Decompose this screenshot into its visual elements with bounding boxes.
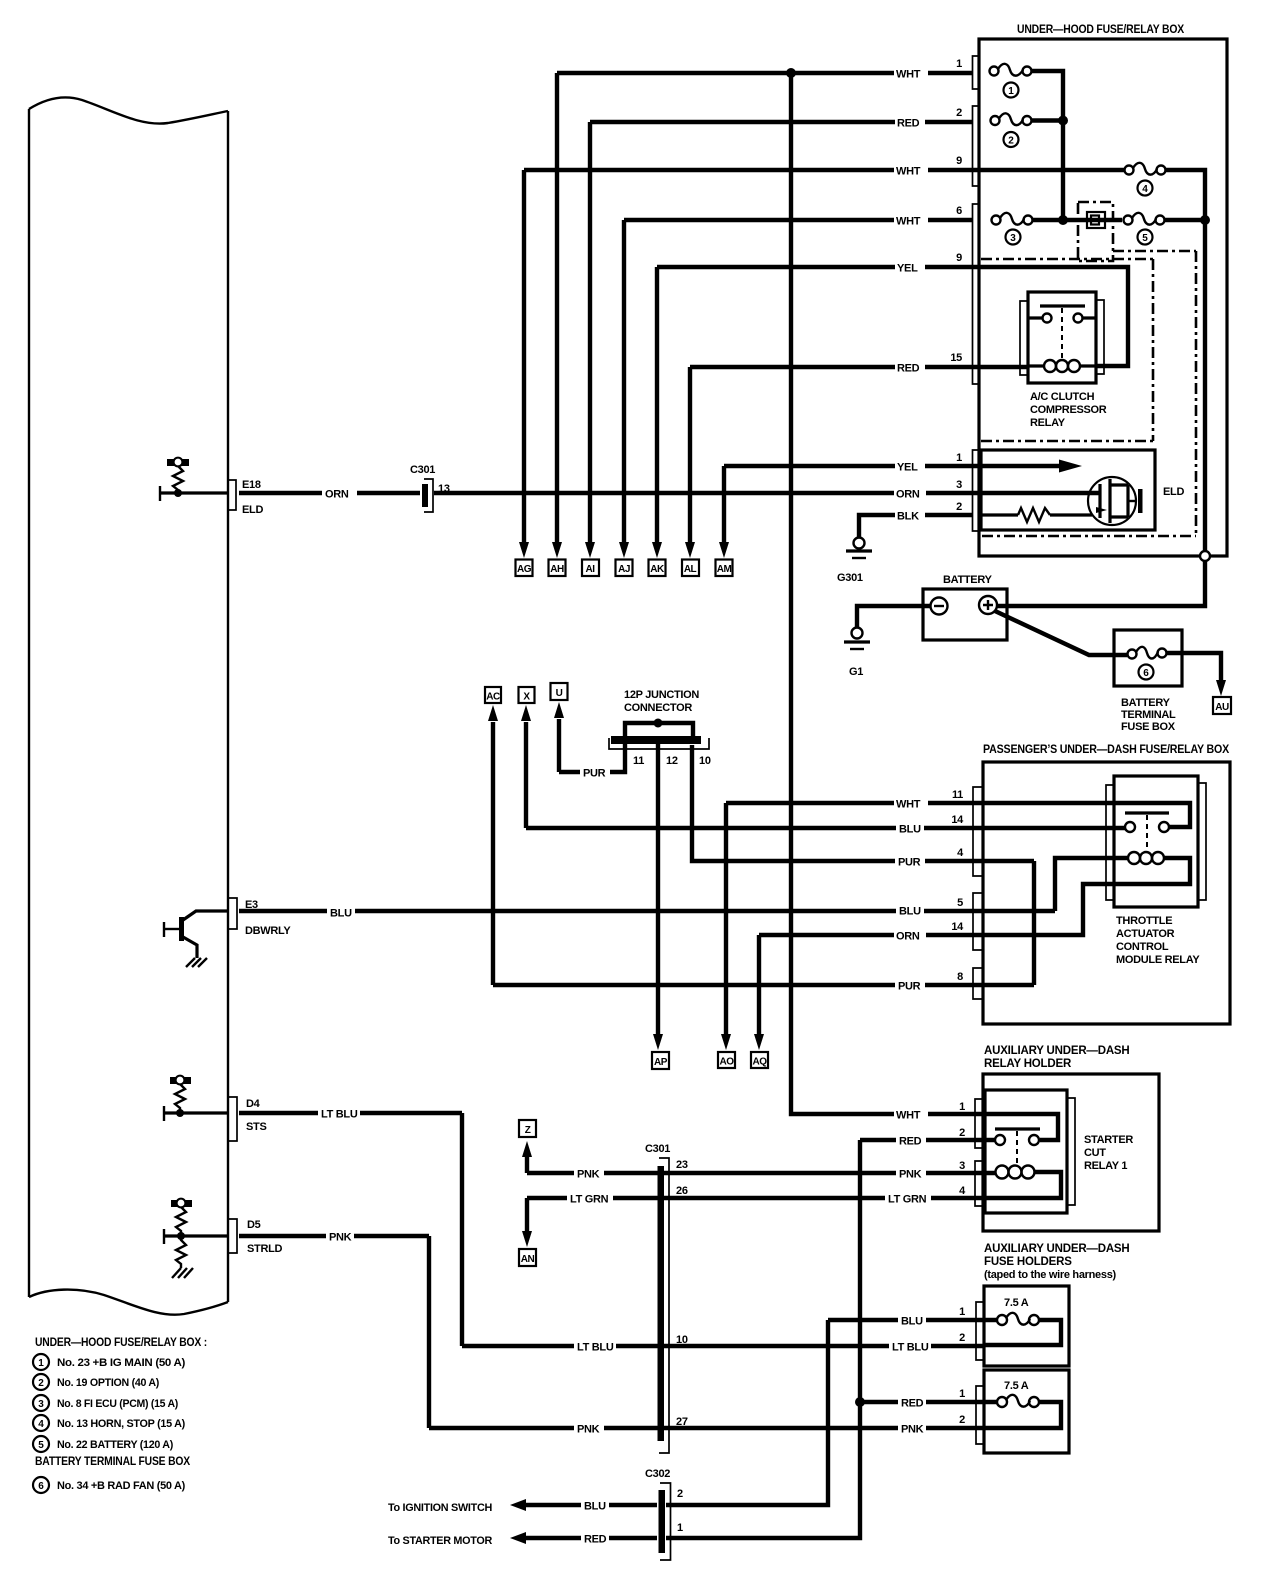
svg-text:TERMINAL: TERMINAL <box>1121 709 1176 721</box>
wire RED starter relay pin 2 <box>860 1138 995 1142</box>
svg-text:CONTROL: CONTROL <box>1116 941 1169 953</box>
svg-text:3: 3 <box>956 479 962 491</box>
label RED C302 <box>581 1531 609 1546</box>
wire RED to starter motor <box>524 1536 657 1540</box>
svg-text:YEL: YEL <box>897 263 918 275</box>
svg-text:WHT: WHT <box>896 799 921 811</box>
arrow to AK <box>652 542 662 558</box>
label WHT pin11 <box>894 796 928 811</box>
svg-text:PASSENGER’S UNDER—DASH FUSE/RE: PASSENGER’S UNDER—DASH FUSE/RELAY BOX <box>983 744 1229 756</box>
A/C clutch compressor relay box <box>1028 292 1096 383</box>
svg-text:6: 6 <box>1143 668 1149 679</box>
arrow to AJ <box>619 542 629 558</box>
svg-text:LT BLU: LT BLU <box>321 1109 358 1121</box>
wire BLU passenger box pin 14 <box>526 826 1125 830</box>
legend item 2 <box>33 1374 160 1390</box>
wire fuse holder 2 loop <box>983 1402 1061 1428</box>
svg-text:UNDER—HOOD FUSE/RELAY BOX: UNDER—HOOD FUSE/RELAY BOX <box>1017 24 1184 36</box>
svg-text:D5: D5 <box>247 1219 261 1231</box>
svg-text:PNK: PNK <box>329 1232 352 1244</box>
svg-text:LT BLU: LT BLU <box>892 1342 929 1354</box>
svg-text:BATTERY TERMINAL FUSE BOX: BATTERY TERMINAL FUSE BOX <box>35 1456 190 1468</box>
svg-text:3: 3 <box>38 1399 44 1410</box>
label PUR pin4 <box>895 854 925 869</box>
svg-text:No. 8 FI ECU (PCM) (15 A): No. 8 FI ECU (PCM) (15 A) <box>57 1398 179 1410</box>
svg-text:AL: AL <box>684 564 697 575</box>
node 12P junction common <box>654 719 663 728</box>
svg-text:BLU: BLU <box>901 1316 923 1328</box>
svg-text:WHT: WHT <box>896 166 921 178</box>
label RED fuse holder 2 <box>898 1395 926 1410</box>
pin E3 bracket <box>229 898 237 929</box>
wire battery positive diagonal to battery terminal fuse box <box>995 611 1127 655</box>
svg-text:AG: AG <box>517 564 532 575</box>
arrow to AN <box>522 1231 532 1247</box>
bracket pins 5,14 <box>973 893 983 950</box>
passenger's under-dash fuse/relay box <box>983 762 1230 1024</box>
svg-text:STS: STS <box>246 1121 267 1133</box>
svg-text:PUR: PUR <box>583 768 606 780</box>
fuse 5 <box>1124 213 1165 225</box>
bracket ELD pins 1,3,2 <box>973 450 980 531</box>
fuse 1 <box>990 64 1032 76</box>
node D4 junction <box>176 1109 184 1117</box>
pin D5 bracket <box>229 1219 237 1253</box>
label ORN ELD pin3 <box>894 486 926 501</box>
wire BLU fuse holder 1 pin 1 <box>828 1318 997 1322</box>
transistor Q1 (DBWRLY driver) <box>164 911 228 958</box>
label LT GRN starter relay pin4 <box>885 1191 931 1206</box>
svg-text:No. 23 +B IG MAIN (50 A): No. 23 +B IG MAIN (50 A) <box>57 1357 186 1369</box>
box AO <box>718 1052 735 1068</box>
arrow to AG <box>519 542 529 558</box>
svg-text:COMPRESSOR: COMPRESSOR <box>1030 404 1107 416</box>
label RED pin2 <box>895 115 925 130</box>
svg-text:D4: D4 <box>246 1098 261 1110</box>
label YEL ELD pin1 <box>895 459 925 474</box>
wire BLU vertical to C302 <box>666 1320 828 1505</box>
svg-text:9: 9 <box>956 155 962 167</box>
TAC relay coil <box>1128 852 1164 864</box>
svg-text:BATTERY: BATTERY <box>943 574 993 586</box>
svg-text:RED: RED <box>901 1398 924 1410</box>
fuse 1 number <box>1004 83 1019 98</box>
svg-text:5: 5 <box>38 1440 44 1451</box>
svg-text:ACTUATOR: ACTUATOR <box>1116 928 1175 940</box>
node fuse1/fuse2 tie <box>1058 116 1068 126</box>
label PNK at C301 pin27 <box>574 1421 604 1436</box>
wire RED A/C relay coil return <box>690 365 973 369</box>
label WHT pin1 <box>894 66 928 81</box>
svg-text:4: 4 <box>1142 184 1148 195</box>
pin E18 bracket <box>229 480 236 510</box>
label A/C CLUTCH COMPRESSOR RELAY <box>1030 391 1107 429</box>
svg-text:2: 2 <box>677 1488 683 1500</box>
box AM <box>716 560 733 577</box>
svg-text:WHT: WHT <box>896 1110 921 1122</box>
wire X arrow stem <box>524 722 528 828</box>
wire PNK vertical <box>427 1236 431 1428</box>
svg-text:2: 2 <box>959 1332 965 1344</box>
wire BLU to ignition switch <box>524 1503 657 1507</box>
wire ORN continues to ELD <box>434 491 973 495</box>
wire LT GRN starter relay pin 4 inner <box>983 1172 1061 1198</box>
box X <box>519 687 535 703</box>
ground G1 <box>844 628 870 650</box>
wire WHT fuse3 feed <box>624 218 973 222</box>
svg-text:4: 4 <box>959 1185 966 1197</box>
wire PNK lower run to C301 pin 27 and fuse holder <box>429 1426 983 1430</box>
box AG <box>516 560 533 577</box>
svg-text:AC: AC <box>486 692 500 703</box>
svg-text:MODULE RELAY: MODULE RELAY <box>1116 954 1200 966</box>
PCM internal pull-up supply for D4 <box>170 1076 191 1113</box>
svg-text:No. 34 +B RAD FAN (50 A): No. 34 +B RAD FAN (50 A) <box>57 1480 186 1492</box>
svg-text:G1: G1 <box>849 666 863 678</box>
box AL <box>682 560 699 577</box>
wire 12P pin 12 to AP <box>656 744 660 1035</box>
svg-text:2: 2 <box>38 1378 44 1389</box>
node D5 junction <box>177 1232 185 1240</box>
box AC <box>485 687 501 703</box>
svg-text:AUXILIARY UNDER—DASH: AUXILIARY UNDER—DASH <box>984 1243 1130 1255</box>
connector C302 bar <box>659 1490 666 1553</box>
svg-text:U: U <box>556 688 563 699</box>
label STARTER CUT RELAY 1 <box>1084 1134 1133 1172</box>
fuse 3 <box>992 213 1033 225</box>
svg-text:23: 23 <box>676 1159 688 1171</box>
svg-text:1: 1 <box>959 1101 965 1113</box>
svg-text:14: 14 <box>951 814 964 826</box>
fuse 4 <box>1125 163 1166 175</box>
node E18 junction <box>174 489 182 497</box>
bracket starter relay pins 3,4 <box>975 1161 983 1206</box>
label PNK fuse holder 2 <box>898 1421 926 1436</box>
wire WHT passenger box pin 11 <box>726 803 1190 827</box>
bracket starter relay pins 1,2 <box>975 1099 983 1148</box>
svg-text:AUXILIARY UNDER—DASH: AUXILIARY UNDER—DASH <box>984 1045 1130 1057</box>
svg-text:1: 1 <box>956 452 962 464</box>
12P junction connector bracket <box>609 738 709 749</box>
svg-text:A/C CLUTCH: A/C CLUTCH <box>1030 391 1095 403</box>
wire RED vertical <box>666 1140 860 1538</box>
svg-text:AJ: AJ <box>618 564 630 575</box>
svg-text:FUSE BOX: FUSE BOX <box>1121 721 1176 733</box>
ground (PCM internal, E3 emitter) <box>186 958 207 967</box>
ELD box <box>981 450 1155 530</box>
wire Z arrow stem <box>525 1156 529 1173</box>
wire AM drop <box>722 466 726 543</box>
label PUR 12P pin 11 <box>580 765 610 780</box>
PCM internal pull-up supply for E18 <box>167 458 189 493</box>
starter relay contact <box>995 1129 1040 1163</box>
A/C relay contact <box>1028 306 1096 358</box>
wire PUR passenger box pin 8 to AC <box>493 983 1034 987</box>
wire fuse holder 1 loop <box>983 1320 1061 1345</box>
wire YEL ELD pin 1 <box>724 464 973 468</box>
dash-dot ELD enclosure bottom <box>982 535 1196 538</box>
under-hood fuse/relay box <box>979 39 1227 556</box>
box AI <box>582 560 599 577</box>
wire D4 internal <box>164 1106 228 1121</box>
12P junction connector bar <box>611 736 701 744</box>
PCM internal divider for D5 <box>171 1199 192 1268</box>
box Z <box>519 1120 536 1137</box>
label PNK starter relay pin3 <box>896 1166 926 1181</box>
svg-text:LT GRN: LT GRN <box>888 1194 927 1206</box>
dash-dot A/C enclosure right <box>1152 259 1155 441</box>
svg-text:PNK: PNK <box>901 1424 924 1436</box>
label BLU left <box>327 905 355 920</box>
wire RED fuse2 feed <box>590 120 973 124</box>
A/C relay bracket left <box>1020 301 1028 375</box>
svg-text:ORN: ORN <box>896 489 920 501</box>
svg-text:LT BLU: LT BLU <box>577 1342 614 1354</box>
label ORN left <box>322 486 357 501</box>
legend item 5 <box>33 1436 174 1452</box>
starter relay bracket right <box>1067 1098 1075 1205</box>
wire AK drop <box>655 267 659 543</box>
fuse 7.5A no.1 <box>997 1313 1039 1325</box>
fuse 7.5A no.2 <box>997 1395 1039 1407</box>
arrow to ignition switch <box>510 1499 526 1511</box>
svg-text:No. 19 OPTION (40 A): No. 19 OPTION (40 A) <box>57 1377 160 1389</box>
svg-text:CONNECTOR: CONNECTOR <box>624 702 692 714</box>
svg-text:4: 4 <box>38 1419 44 1430</box>
legend item 3 <box>33 1395 179 1411</box>
svg-text:BLU: BLU <box>330 908 352 920</box>
svg-text:X: X <box>523 692 530 703</box>
svg-text:2: 2 <box>959 1127 965 1139</box>
dash-dot link diode to right <box>1113 250 1196 253</box>
wire U arrow stem <box>557 719 561 772</box>
svg-text:DBWRLY: DBWRLY <box>245 925 291 937</box>
arrow to AH <box>552 542 562 558</box>
svg-text:1: 1 <box>38 1358 44 1369</box>
wire fuse 6 output to AU <box>1166 653 1221 681</box>
box AK <box>649 560 666 577</box>
A/C relay bracket right <box>1096 300 1104 374</box>
svg-text:12: 12 <box>666 755 678 767</box>
arrow to Z <box>522 1141 532 1157</box>
wire 12P pin 11 to PUR / U <box>559 744 625 772</box>
box AP <box>652 1052 669 1069</box>
svg-text:3: 3 <box>959 1160 965 1172</box>
fuse 6 number <box>1139 665 1154 680</box>
svg-text:1: 1 <box>956 58 962 70</box>
arrow to AU <box>1216 680 1226 696</box>
arrow to AM <box>719 542 729 558</box>
svg-text:E18: E18 <box>242 479 261 491</box>
arrow to AC <box>488 705 498 721</box>
svg-text:UNDER—HOOD FUSE/RELAY BOX :: UNDER—HOOD FUSE/RELAY BOX : <box>35 1337 207 1349</box>
TAC relay contact <box>1125 813 1169 849</box>
svg-text:AP: AP <box>654 1057 668 1068</box>
TAC relay bracket right <box>1198 783 1206 900</box>
svg-text:C301: C301 <box>645 1143 670 1155</box>
diode block <box>1087 212 1105 228</box>
fuse 4 number <box>1138 181 1153 196</box>
label AUXILIARY UNDER-DASH RELAY HOLDER <box>984 1045 1130 1070</box>
arrow to AI <box>585 542 595 558</box>
label BLU pin5 <box>896 903 924 918</box>
svg-text:RELAY 1: RELAY 1 <box>1084 1160 1127 1172</box>
svg-text:4: 4 <box>957 847 964 859</box>
svg-text:AI: AI <box>586 564 596 575</box>
wire AG drop <box>522 170 526 543</box>
wire AC arrow stem <box>491 722 495 985</box>
svg-text:BLK: BLK <box>897 511 919 523</box>
label AUXILIARY UNDER-DASH FUSE HOLDERS <box>984 1243 1130 1281</box>
svg-text:ORN: ORN <box>325 489 349 501</box>
svg-text:RELAY HOLDER: RELAY HOLDER <box>984 1058 1072 1070</box>
arrow to AL <box>685 542 695 558</box>
svg-text:2: 2 <box>1008 136 1014 147</box>
svg-text:AU: AU <box>1215 702 1229 713</box>
diode block inner <box>1091 216 1099 225</box>
svg-text:RELAY: RELAY <box>1030 417 1066 429</box>
label LT BLU at C301 pin10 <box>574 1339 616 1354</box>
bracket fuse holder 2 <box>976 1386 984 1444</box>
legend item 6 <box>33 1477 186 1493</box>
svg-text:PNK: PNK <box>577 1169 600 1181</box>
wire AI drop <box>588 122 592 543</box>
wire WHT fuse4 feed <box>524 168 973 172</box>
pin D4 bracket <box>229 1097 237 1141</box>
svg-text:ELD: ELD <box>242 504 263 516</box>
label BLK ELD pin2 <box>895 508 925 523</box>
svg-text:WHT: WHT <box>896 69 921 81</box>
wire WHT fuse1 feed <box>557 71 973 75</box>
label YEL pin9 <box>895 260 925 275</box>
svg-text:5: 5 <box>957 897 963 909</box>
ground G301 <box>846 538 872 559</box>
label PUR pin8 <box>895 978 925 993</box>
wire BLK ELD pin 2 with resistor <box>859 508 1092 537</box>
arrow to AO <box>721 1034 731 1050</box>
label PNK at C301 pin23 <box>574 1166 604 1181</box>
svg-text:STRLD: STRLD <box>247 1243 283 1255</box>
battery terminal fuse box <box>1114 630 1182 686</box>
wire BLU passenger box pin 5 inner jog to relay coil <box>1055 858 1128 911</box>
label WHT pin9 <box>894 163 928 178</box>
wire battery negative to G1 <box>857 606 931 627</box>
bracket fuse holder 1 <box>976 1302 984 1360</box>
node RED tie fuse holder <box>855 1397 865 1407</box>
svg-text:RED: RED <box>897 118 920 130</box>
wire AQ drop <box>757 935 761 1035</box>
svg-text:LT GRN: LT GRN <box>570 1194 609 1206</box>
connector C301 bracket <box>659 1158 669 1453</box>
node fuse4/5 tie <box>1200 215 1210 225</box>
wire PNK STRLD upper run <box>239 1234 429 1238</box>
label LT BLU left <box>318 1106 360 1121</box>
arrow to AP <box>653 1034 663 1050</box>
svg-text:8: 8 <box>957 971 963 983</box>
wire BLU DBWRLY (E3 to passenger box pin 5) <box>239 909 1055 913</box>
svg-text:5: 5 <box>1142 233 1148 244</box>
svg-text:2: 2 <box>956 501 962 513</box>
svg-text:ELD: ELD <box>1163 486 1184 498</box>
wire ORN passenger box pin 14 to AQ <box>759 858 1190 935</box>
svg-text:2: 2 <box>956 107 962 119</box>
wire YEL ELD pin 1 arrow <box>973 460 1082 473</box>
auxiliary under-dash relay holder box <box>983 1074 1159 1231</box>
TAC relay bracket left <box>1106 785 1114 900</box>
svg-text:PUR: PUR <box>898 857 921 869</box>
wire LT BLU STS upper run <box>239 1111 462 1115</box>
svg-text:AQ: AQ <box>753 1057 768 1068</box>
label RED starter relay pin2 <box>896 1133 926 1148</box>
svg-text:1: 1 <box>959 1388 965 1400</box>
svg-text:15: 15 <box>950 352 962 364</box>
ground (PCM internal, D5 divider) <box>172 1268 193 1278</box>
fuse 2 number <box>1004 132 1019 147</box>
arrow to AQ <box>754 1034 764 1050</box>
svg-text:RED: RED <box>899 1136 922 1148</box>
svg-text:WHT: WHT <box>896 216 921 228</box>
ELD FET <box>1088 477 1143 525</box>
svg-text:BLU: BLU <box>899 824 921 836</box>
svg-text:26: 26 <box>676 1185 688 1197</box>
svg-text:27: 27 <box>676 1416 688 1428</box>
arrow to U <box>554 702 564 718</box>
bracket pin 8 <box>973 968 983 999</box>
wire fuse2 row <box>1031 118 1063 122</box>
wire ORN ELD pin 3 <box>973 491 1100 495</box>
bracket pins 2,9 <box>973 106 980 186</box>
svg-text:RED: RED <box>897 363 920 375</box>
node fuse3 tie <box>1058 215 1068 225</box>
label ORN pin14 <box>894 928 926 943</box>
svg-text:BATTERY: BATTERY <box>1121 697 1171 709</box>
bracket pins 6,9,15 <box>973 204 980 384</box>
wire AH drop <box>555 73 559 543</box>
wire LT BLU vertical <box>460 1113 464 1346</box>
svg-text:PUR: PUR <box>898 981 921 993</box>
svg-text:AN: AN <box>521 1254 535 1265</box>
starter cut relay 1 box <box>985 1090 1067 1213</box>
svg-text:14: 14 <box>951 921 964 933</box>
wire fuse3 row through diode to fuse5 <box>1033 218 1205 222</box>
svg-text:To IGNITION SWITCH: To IGNITION SWITCH <box>388 1502 492 1514</box>
label BLU C302 <box>581 1498 609 1513</box>
svg-text:To STARTER MOTOR: To STARTER MOTOR <box>388 1535 492 1547</box>
legend item 1 <box>33 1354 186 1370</box>
svg-text:E3: E3 <box>245 899 258 911</box>
throttle actuator control module relay box <box>1114 776 1198 907</box>
svg-text:11: 11 <box>633 755 644 767</box>
svg-text:9: 9 <box>956 252 962 264</box>
node WHT junction <box>786 68 796 78</box>
svg-text:7.5 A: 7.5 A <box>1004 1380 1029 1392</box>
svg-text:RED: RED <box>584 1534 607 1546</box>
box AJ <box>616 560 633 577</box>
auxiliary under-dash fuse holder 2 <box>984 1370 1069 1453</box>
wire YEL to A/C relay coil <box>973 267 1128 366</box>
bracket pins 11,14,4 <box>973 787 983 876</box>
box AQ <box>751 1052 768 1068</box>
wire E18 internal <box>160 486 228 501</box>
svg-text:AM: AM <box>717 564 732 575</box>
svg-text:CUT: CUT <box>1084 1147 1106 1159</box>
svg-text:3: 3 <box>1010 233 1016 244</box>
wire ORN (E18/ELD to C301 pin 13 to ELD pin 3) <box>239 491 420 495</box>
box U <box>551 683 568 700</box>
wire D5 internal <box>164 1229 228 1244</box>
dash-dot right vertical <box>1195 251 1198 536</box>
label PNK left <box>326 1229 354 1244</box>
